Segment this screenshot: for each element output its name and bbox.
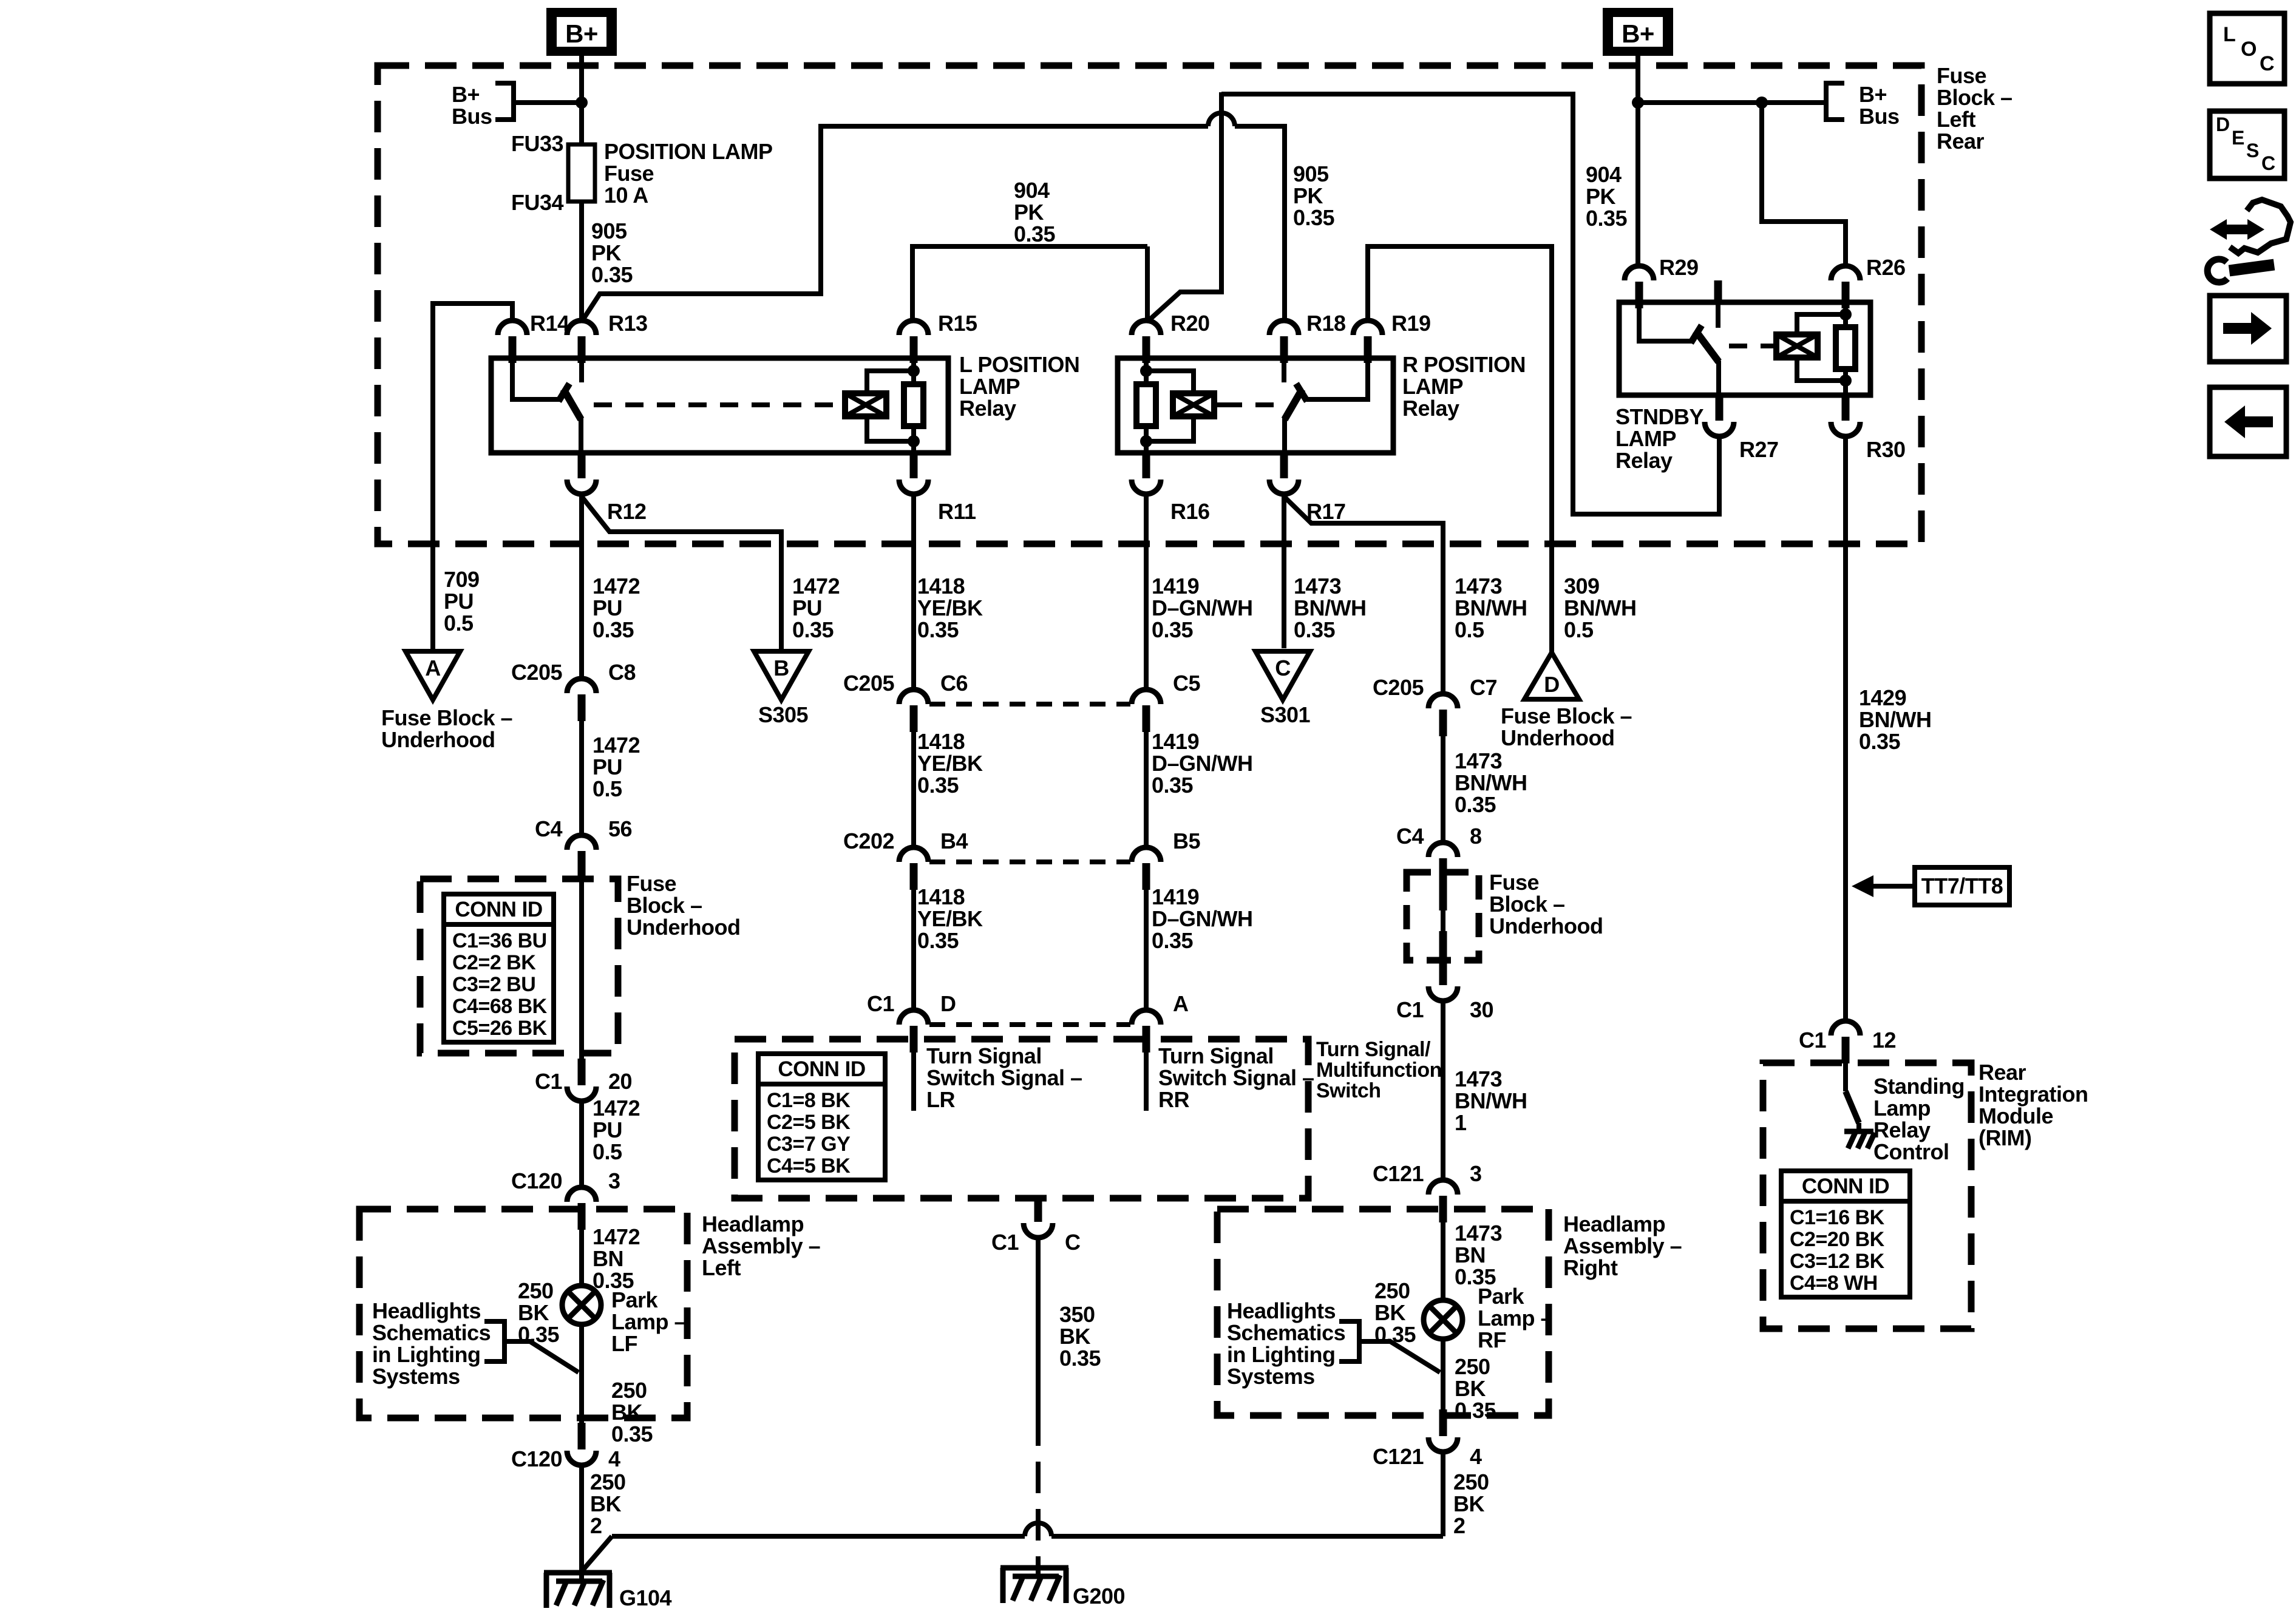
conn id table (RIM) bbox=[1781, 1171, 1910, 1297]
off-page triangle D fuse block underhood bbox=[1524, 653, 1579, 699]
wire 1472 PU C8 to C4-56 bbox=[579, 721, 584, 835]
node coil bottom junction (standby) bbox=[1839, 375, 1852, 387]
svg-text:C: C bbox=[2261, 152, 2275, 174]
B+ Bus bracket (left) bbox=[495, 81, 514, 122]
wire from R27 standby relay to R20 bbox=[1148, 92, 1221, 321]
node coil bottom junction (middle) bbox=[1140, 435, 1152, 447]
wire R15 pin to resistor bbox=[911, 362, 916, 384]
ground G200 bbox=[1000, 1568, 1068, 1603]
svg-text:C205: C205 bbox=[1373, 675, 1424, 700]
wire B+ (left) down to fuse FU33 bbox=[579, 56, 584, 144]
svg-text:C1=8 BKC2=5 BKC3=7 GYC4=5 BK: C1=8 BKC2=5 BKC3=7 GYC4=5 BK bbox=[767, 1089, 851, 1178]
svg-text:D: D bbox=[2216, 114, 2230, 135]
bulb Park Lamp RF bbox=[1424, 1300, 1462, 1339]
dashed link D to A bbox=[929, 1022, 1130, 1027]
B+ Bus bracket (right) bbox=[1826, 81, 1844, 122]
node coil top junction (middle) bbox=[1140, 365, 1152, 377]
connector pin A bbox=[1132, 1010, 1161, 1025]
svg-text:L: L bbox=[2223, 23, 2235, 46]
resistor (left relay) bbox=[904, 384, 923, 426]
wire 1472 PU C1-20 to C120 bbox=[579, 1101, 584, 1187]
connector pin C5 bbox=[1132, 690, 1161, 704]
wire ground bus into G104 bbox=[582, 1536, 612, 1571]
svg-text:56: 56 bbox=[608, 816, 632, 841]
wire blade to R17 bbox=[1282, 418, 1287, 453]
pin R19 connector bbox=[1353, 320, 1382, 335]
wire resistor to R30 bbox=[1843, 369, 1848, 395]
svg-text:12: 12 bbox=[1872, 1028, 1896, 1053]
svg-text:G200: G200 bbox=[1073, 1584, 1125, 1609]
svg-text:CONN ID: CONN ID bbox=[778, 1057, 865, 1081]
pin R14 connector bbox=[498, 320, 527, 335]
dashed link B4 to B5 bbox=[929, 859, 1130, 864]
fuse FU33/FU34 POSITION LAMP Fuse 10A bbox=[568, 144, 595, 202]
svg-text:R13: R13 bbox=[608, 311, 648, 336]
crossover hop on 905 PK wire bbox=[1208, 113, 1235, 126]
stub center pin into switch bbox=[1716, 302, 1720, 328]
wire coil bottom branch (middle) bbox=[1146, 416, 1194, 441]
node junction right B+ 2 bbox=[1756, 97, 1768, 109]
off-page triangle C splice S301 bbox=[1255, 651, 1310, 700]
dashed coil actuation link (left relay) bbox=[594, 402, 845, 407]
svg-text:C7: C7 bbox=[1470, 675, 1497, 700]
conn id table (turn signal switch) bbox=[758, 1054, 885, 1180]
wire blade to R12 bbox=[579, 418, 583, 453]
dashed coil actuation link (standby relay) bbox=[1729, 344, 1767, 348]
wire coil top branch bbox=[867, 371, 914, 393]
unused center pin (standby relay) bbox=[1714, 280, 1722, 302]
wire 1472 BN to park lamp LF bbox=[579, 1230, 584, 1286]
svg-text:C1=16 BKC2=20 BKC3=12 BKC4=8 W: C1=16 BKC2=20 BKC3=12 BKC4=8 WH bbox=[1790, 1206, 1885, 1295]
svg-text:C1=36 BUC2=2 BKC3=2 BUC4=68 BK: C1=36 BUC2=2 BKC3=2 BUC4=68 BKC5=26 BK bbox=[452, 929, 548, 1040]
svg-text:R14: R14 bbox=[530, 311, 569, 336]
pin R29 connector bbox=[1625, 266, 1654, 280]
svg-text:C: C bbox=[2260, 52, 2274, 75]
connector C121 pin 4 bbox=[1439, 1409, 1447, 1436]
pin into small fuse block (top) bbox=[1439, 874, 1447, 910]
wire coil top branch (standby) bbox=[1797, 314, 1846, 334]
svg-text:G104: G104 bbox=[619, 1585, 672, 1610]
wire 250 BK 2 to G104 bbox=[579, 1465, 584, 1582]
wire 904 PK linking R15 and R20 bbox=[912, 246, 1147, 320]
fuse block underhood small dashed box bbox=[1407, 872, 1479, 960]
svg-text:C121: C121 bbox=[1373, 1161, 1424, 1186]
wire 1418 YE/BK from R11 to C6 bbox=[911, 494, 916, 690]
svg-text:30: 30 bbox=[1470, 997, 1493, 1022]
wire inside small fuse block bbox=[1441, 909, 1445, 932]
connector C205 pin C7 bbox=[1428, 694, 1458, 708]
svg-text:S: S bbox=[2246, 140, 2259, 161]
icon jump with wrench bbox=[2230, 200, 2291, 253]
svg-text:Fuse Block –Underhood: Fuse Block –Underhood bbox=[1501, 703, 1632, 750]
stub D into turn signal switch bbox=[911, 1053, 916, 1111]
connector C202 pin B4 bbox=[899, 847, 928, 862]
fuse block - left rear dashed boundary bbox=[378, 66, 1921, 544]
svg-text:C5: C5 bbox=[1173, 671, 1200, 696]
switch blade (left relay) bbox=[563, 389, 581, 419]
svg-text:R26: R26 bbox=[1866, 255, 1906, 280]
pin R27 connector bbox=[1716, 394, 1724, 421]
headlamp assembly right dashed box bbox=[1217, 1209, 1549, 1415]
pin R30 connector bbox=[1842, 394, 1850, 421]
wire 1419 D-GN/WH from R16 to C5 bbox=[1144, 494, 1149, 690]
svg-text:CONN ID: CONN ID bbox=[1802, 1175, 1889, 1198]
relay coil (standby relay) bbox=[1776, 334, 1818, 358]
svg-text:8: 8 bbox=[1470, 824, 1482, 849]
svg-text:C4: C4 bbox=[535, 816, 562, 841]
icon box DESC bbox=[2210, 111, 2284, 178]
stub R13 into switch bbox=[579, 362, 584, 382]
svg-text:R27: R27 bbox=[1739, 437, 1779, 462]
pin R26 connector bbox=[1831, 266, 1860, 280]
wire coil lead (standby relay) bbox=[1767, 344, 1776, 348]
svg-text:3: 3 bbox=[608, 1168, 620, 1193]
wire 905 PK from fuse to R13 bbox=[579, 202, 584, 320]
svg-text:C121: C121 bbox=[1373, 1444, 1424, 1469]
bracket headlights schematics (left) bbox=[484, 1319, 504, 1364]
svg-text:O: O bbox=[2241, 38, 2257, 61]
wire 1472 PU from R12 to C8 bbox=[579, 494, 584, 679]
svg-text:C120: C120 bbox=[511, 1168, 562, 1193]
connector C1 pin 30 bbox=[1439, 958, 1447, 985]
headlamp assembly left dashed box bbox=[359, 1209, 687, 1418]
wire R29 to switch contact bbox=[1639, 307, 1693, 341]
svg-text:R16: R16 bbox=[1170, 499, 1210, 524]
connector C1 pin C (ground out of switch) bbox=[1034, 1195, 1042, 1222]
svg-text:FU33: FU33 bbox=[511, 131, 563, 156]
wire 1418 YE/BK B4 to D bbox=[911, 890, 916, 1010]
svg-text:B5: B5 bbox=[1173, 829, 1200, 853]
svg-text:R29: R29 bbox=[1659, 255, 1699, 280]
wire 709 PU from R14 to fuse block underhood bbox=[433, 303, 512, 651]
pin R20 connector bbox=[1132, 320, 1161, 335]
icon box LOC bbox=[2210, 13, 2284, 84]
connector C4 pin 56 bbox=[567, 835, 596, 850]
wire B+ bus to junction bbox=[514, 100, 582, 105]
pin R13 connector bbox=[567, 320, 596, 335]
connector C120 pin 4 bbox=[578, 1423, 586, 1449]
wire 1473 BN/WH from R17 to S301 bbox=[1282, 494, 1286, 648]
connector C1 pin 20 bbox=[578, 1059, 586, 1085]
wire coil top branch (middle) bbox=[1146, 371, 1194, 393]
svg-text:C: C bbox=[1275, 656, 1291, 680]
wire 1473 BN/WH C7 to C4-8 bbox=[1441, 736, 1445, 842]
svg-text:C205: C205 bbox=[843, 671, 895, 696]
connector C1 pin D bbox=[899, 1010, 928, 1025]
wire resistor to R11 bbox=[911, 426, 916, 453]
wire coil bottom branch (standby) bbox=[1797, 358, 1846, 381]
svg-text:TT7/TT8: TT7/TT8 bbox=[1921, 873, 2003, 898]
svg-text:B: B bbox=[773, 656, 789, 680]
wire through fuse block underhood box bbox=[579, 878, 584, 1059]
jumper wire to park lamp RF ground side bbox=[1359, 1341, 1440, 1372]
wire R20 pin to resistor bbox=[1144, 362, 1149, 384]
pin R11 connector bbox=[910, 452, 918, 478]
wire 1429 BN/WH from R30 to RIM bbox=[1843, 436, 1848, 1021]
svg-text:R11: R11 bbox=[938, 499, 976, 524]
svg-text:R19: R19 bbox=[1391, 311, 1431, 336]
svg-text:R30: R30 bbox=[1866, 437, 1906, 462]
svg-text:C1: C1 bbox=[1396, 997, 1424, 1022]
power feed B+ terminal (right) bbox=[1603, 8, 1673, 56]
conn id table (fuse block underhood) bbox=[444, 894, 554, 1042]
wire coil lead (middle relay) bbox=[1214, 402, 1224, 407]
pin R17 connector bbox=[1280, 452, 1288, 478]
svg-text:B+: B+ bbox=[1622, 19, 1654, 48]
fuse block underhood dashed box (conn id) bbox=[420, 879, 618, 1053]
svg-text:B+: B+ bbox=[565, 19, 598, 48]
svg-text:C120: C120 bbox=[511, 1446, 562, 1471]
wire 1419 B5 to A bbox=[1144, 890, 1149, 1010]
bulb Park Lamp LF bbox=[562, 1286, 601, 1324]
connector C205 pin C6 bbox=[899, 690, 928, 704]
connector pin B5 bbox=[1132, 847, 1161, 862]
svg-text:C205: C205 bbox=[511, 660, 563, 685]
wire C4-8 into fuse block underhood (small) bbox=[1441, 885, 1445, 900]
node coil top junction bbox=[908, 365, 920, 377]
rear integration module dashed box bbox=[1763, 1063, 1971, 1329]
node coil bottom junction bbox=[908, 435, 920, 447]
wire blade to R27 bbox=[1716, 361, 1721, 395]
connector C4 pin 8 bbox=[1428, 842, 1458, 857]
node junction right B+ 1 bbox=[1632, 97, 1644, 109]
wire resistor to R16 bbox=[1144, 426, 1149, 453]
svg-text:4: 4 bbox=[608, 1446, 620, 1471]
standing lamp relay control switch stub bbox=[1843, 1063, 1848, 1091]
stub A into turn signal switch bbox=[1144, 1053, 1149, 1111]
svg-text:S301: S301 bbox=[1260, 702, 1311, 727]
wire 1419 C5 to B5 bbox=[1144, 732, 1149, 847]
ground G104 bbox=[544, 1573, 612, 1608]
svg-text:R12: R12 bbox=[607, 499, 647, 524]
svg-text:R15: R15 bbox=[938, 311, 977, 336]
dashed coil actuation link (middle relay) bbox=[1224, 402, 1274, 407]
svg-text:C1: C1 bbox=[1799, 1028, 1826, 1053]
wire B+ to R26 bbox=[1762, 103, 1846, 266]
svg-text:20: 20 bbox=[608, 1069, 632, 1094]
wire B+ (right) down to R29 bbox=[1635, 56, 1640, 266]
svg-text:C202: C202 bbox=[843, 829, 894, 853]
wire R14 to switch contact inside relay bbox=[512, 362, 562, 399]
resistor (middle relay) bbox=[1136, 384, 1156, 426]
bracket headlights schematics (right) bbox=[1339, 1319, 1359, 1364]
wire 1473 BN/WH branch from R17 to C7 bbox=[1284, 497, 1443, 694]
wire 350 BK dashed part to G200 bbox=[1036, 1414, 1041, 1578]
connector C121 pin 3 bbox=[1428, 1180, 1458, 1195]
wire 309 BN/WH from R19 to fuse block underhood D bbox=[1368, 246, 1552, 653]
wire park lamp RF to C121-4 bbox=[1441, 1339, 1445, 1423]
svg-text:A: A bbox=[1173, 991, 1189, 1016]
pin R15 connector bbox=[899, 320, 928, 335]
svg-text:R20: R20 bbox=[1170, 311, 1210, 336]
svg-text:3: 3 bbox=[1470, 1161, 1482, 1186]
power feed B+ terminal (left) bbox=[546, 8, 617, 56]
pin out of small fuse block (bottom) bbox=[1439, 931, 1447, 965]
svg-text:4: 4 bbox=[1470, 1444, 1482, 1469]
svg-text:C4: C4 bbox=[1396, 824, 1424, 849]
svg-text:E: E bbox=[2232, 127, 2244, 149]
svg-text:A: A bbox=[425, 656, 441, 680]
off-page triangle B splice S305 bbox=[754, 651, 809, 700]
switch fixed contact tick (left relay) bbox=[559, 384, 569, 401]
node coil top junction (standby) bbox=[1839, 308, 1852, 320]
svg-text:B4: B4 bbox=[940, 829, 968, 853]
svg-text:C6: C6 bbox=[940, 671, 968, 696]
turn signal switch dashed box bbox=[735, 1039, 1308, 1198]
pin R18 connector bbox=[1269, 320, 1299, 335]
icon box previous (left arrow) bbox=[2210, 387, 2286, 456]
switch blade (middle relay) bbox=[1285, 389, 1302, 419]
wire park lamp LF to C120-4 bbox=[579, 1324, 584, 1423]
svg-text:R18: R18 bbox=[1306, 311, 1346, 336]
testpoint arrow bbox=[1871, 884, 1915, 889]
svg-text:D: D bbox=[940, 991, 956, 1016]
off-page triangle A fuse block underhood bbox=[406, 651, 460, 700]
icon box next (right arrow) bbox=[2210, 296, 2286, 362]
crossover hop over 350 BK at G200 bbox=[1025, 1523, 1051, 1536]
svg-text:C: C bbox=[1065, 1230, 1081, 1255]
pin R12 connector bbox=[578, 452, 586, 478]
wire 905 PK from R13 to R18 bbox=[582, 126, 1208, 322]
relay box L POSITION LAMP bbox=[491, 358, 948, 453]
svg-text:C1: C1 bbox=[991, 1230, 1019, 1255]
svg-text:S305: S305 bbox=[758, 702, 809, 727]
wire 1473 BN to park lamp RF bbox=[1441, 1222, 1445, 1300]
svg-text:CONN ID: CONN ID bbox=[455, 898, 542, 921]
jumper wire to park lamp LF ground side bbox=[504, 1341, 579, 1372]
connector C1 pin 12 bbox=[1831, 1021, 1860, 1036]
wire 1472 PU branch from R12 to S305 bbox=[582, 497, 781, 651]
stub R18 into switch bbox=[1282, 362, 1286, 382]
dashed link C6 to C5 bbox=[929, 702, 1130, 707]
connector C205 pin C8 bbox=[567, 679, 596, 693]
wire R19 to switch contact inside relay bbox=[1306, 362, 1368, 399]
wire 250 BK 2 (right) bbox=[1441, 1452, 1445, 1536]
wire 1473 BN/WH C1-30 to C121-3 bbox=[1441, 1001, 1445, 1180]
svg-text:D: D bbox=[1544, 672, 1560, 697]
wire 1418 YE/BK C6 to B4 bbox=[911, 732, 916, 847]
switch fixed contact tick (middle relay) bbox=[1296, 384, 1307, 401]
switch blade (standby relay) bbox=[1696, 331, 1719, 362]
standing lamp relay control switch blade bbox=[1846, 1091, 1859, 1123]
svg-text:C1: C1 bbox=[535, 1069, 562, 1094]
svg-text:C1: C1 bbox=[867, 991, 894, 1016]
wire 350 BK from switch (solid part) bbox=[1036, 1238, 1041, 1414]
connector C120 pin 3 bbox=[567, 1187, 596, 1202]
wire ground bus 250 BK bbox=[612, 1465, 1443, 1536]
wire coil bottom branch bbox=[867, 416, 914, 441]
mini ground in RIM bbox=[1856, 1123, 1861, 1131]
relay box R POSITION LAMP bbox=[1118, 358, 1393, 453]
switch fixed contact tick (standby relay) bbox=[1691, 325, 1702, 343]
pin R16 connector bbox=[1143, 452, 1150, 478]
testpoint callout TT7/TT8 box bbox=[1915, 867, 2009, 905]
svg-text:R17: R17 bbox=[1306, 499, 1346, 524]
relay coil (middle relay) bbox=[1173, 393, 1214, 416]
svg-text:Fuse Block –Underhood: Fuse Block –Underhood bbox=[381, 705, 512, 752]
svg-text:C8: C8 bbox=[608, 660, 636, 685]
wire R26 pin to resistor bbox=[1843, 307, 1848, 327]
node junction B+ bus left bbox=[576, 97, 588, 109]
relay box STNDBY LAMP bbox=[1619, 302, 1870, 395]
relay coil (left relay) bbox=[845, 393, 886, 416]
svg-text:FU34: FU34 bbox=[511, 190, 564, 215]
resistor (standby relay) bbox=[1836, 327, 1855, 369]
wire B+ bus right bbox=[1638, 100, 1826, 105]
